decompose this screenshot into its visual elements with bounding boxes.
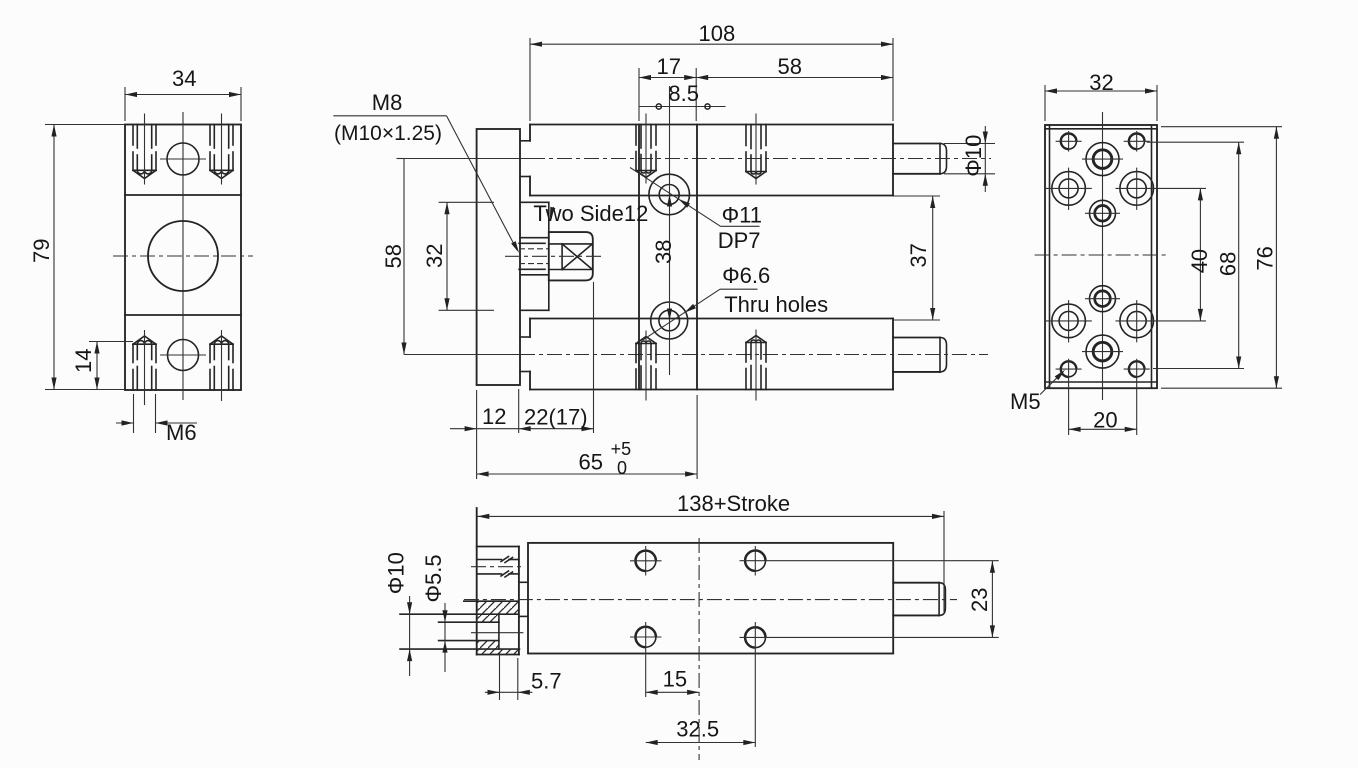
svg-text:17: 17 bbox=[657, 54, 681, 79]
left view big bore horizontal centerline bbox=[113, 255, 253, 257]
left view upper section line bbox=[125, 194, 241, 196]
bottom view hatch band C bbox=[439, 640, 499, 642]
dimension 17 and 58 extension lines bbox=[638, 68, 640, 121]
dimension 32 vertical bbox=[446, 202, 448, 310]
bottom view bore centerline bbox=[471, 632, 523, 634]
central view wrench-flat boss with rounded end bbox=[549, 232, 593, 280]
right view M5 hole top-left bbox=[1061, 134, 1077, 150]
svg-text:138+Stroke: 138+Stroke bbox=[677, 491, 790, 516]
central view rod shoulder lines bbox=[520, 237, 549, 239]
right view center top threaded hole bbox=[1086, 143, 1119, 176]
dimension 34 bbox=[125, 94, 241, 96]
dimension 108 bbox=[530, 43, 893, 45]
dimension 76 extension lines bbox=[1161, 126, 1282, 128]
bottom view body outline bbox=[528, 543, 893, 654]
dimension 79 extension lines bbox=[45, 124, 125, 126]
bottom view piston rod bbox=[893, 582, 939, 584]
svg-text:65: 65 bbox=[579, 450, 603, 475]
svg-text:58: 58 bbox=[778, 54, 802, 79]
svg-text:Φ10: Φ10 bbox=[961, 135, 986, 177]
bottom view hatch band B bbox=[477, 614, 499, 622]
svg-text:5.7: 5.7 bbox=[531, 669, 562, 694]
left view M6 threaded hole bottom-right bbox=[209, 370, 211, 391]
right view center small threaded hole upper bbox=[1090, 200, 1116, 226]
dimension 38 on hole centerline bbox=[667, 195, 672, 207]
central view M8 rod thread lines bbox=[519, 242, 545, 244]
dimension 138+Stroke bbox=[477, 515, 944, 517]
dimension 32.5 bbox=[646, 742, 756, 744]
dimension 23 bbox=[991, 561, 993, 638]
svg-text:DP7: DP7 bbox=[718, 228, 761, 253]
dimension 138+Stroke extension line right bbox=[943, 511, 945, 612]
svg-text:+5: +5 bbox=[611, 439, 632, 459]
dimension 37 bbox=[932, 196, 934, 320]
bottom view mounting hole bottom-right bbox=[745, 627, 765, 647]
svg-text:Thru holes: Thru holes bbox=[724, 292, 828, 317]
dimension 32 right view extension lines bbox=[1044, 85, 1046, 121]
dimension phi10 rod bbox=[984, 126, 986, 192]
right view counterbore hole lower-left bbox=[1052, 304, 1086, 338]
dimension 12 and 22(17) extension lines bbox=[476, 390, 478, 479]
svg-text:22(17): 22(17) bbox=[524, 405, 588, 430]
bottom view end plate outline bbox=[476, 508, 478, 655]
svg-text:37: 37 bbox=[906, 243, 931, 267]
central view upper neck bbox=[520, 140, 530, 142]
port hole bottom-right on lower barrel bbox=[745, 369, 747, 390]
svg-text:68: 68 bbox=[1215, 252, 1240, 276]
dimension 58 vertical bbox=[403, 159, 405, 355]
central view upper barrel centerline bbox=[404, 158, 530, 160]
dimension 37 extension lines bbox=[893, 195, 940, 197]
dimension 8.5 bbox=[639, 106, 726, 108]
right view vertical centerline bbox=[1102, 112, 1104, 400]
dimension 17 bbox=[639, 77, 696, 79]
svg-text:38: 38 bbox=[651, 240, 676, 264]
dimension phi5.5 bottom view bbox=[444, 603, 446, 672]
dimension 68 extension lines bbox=[1147, 141, 1244, 143]
left end view outline bbox=[125, 125, 241, 391]
left view lower section line bbox=[125, 314, 241, 316]
svg-text:23: 23 bbox=[967, 588, 992, 612]
hole vertical centerline bbox=[669, 86, 671, 375]
svg-text:8.5: 8.5 bbox=[668, 81, 699, 106]
bottom view mounting hole bottom-left bbox=[636, 627, 656, 647]
port hole top-right on upper barrel bbox=[745, 125, 747, 146]
port hole top-left on upper barrel bbox=[635, 125, 637, 146]
left view M6 threaded hole top-right bbox=[209, 125, 211, 146]
bottom view bore depth line bbox=[498, 614, 500, 649]
bottom view threaded rod bbox=[477, 559, 502, 561]
dimension 5.7 bbox=[485, 691, 533, 693]
svg-text:79: 79 bbox=[29, 239, 54, 263]
through hole circle phi6.6 bbox=[651, 302, 688, 339]
central view lower barrel centerline bbox=[404, 354, 520, 356]
svg-text:Φ11: Φ11 bbox=[722, 203, 762, 228]
svg-text:15: 15 bbox=[663, 666, 687, 691]
right view M5 hole bottom-right bbox=[1129, 361, 1145, 377]
dimension 15 bbox=[646, 691, 699, 693]
central view slide block boss bbox=[520, 201, 549, 203]
svg-text:0: 0 bbox=[617, 458, 627, 478]
left view lower pilot hole circle bbox=[168, 340, 199, 371]
port hole bottom-left on lower barrel bbox=[635, 369, 637, 390]
svg-text:40: 40 bbox=[1187, 249, 1212, 273]
svg-text:34: 34 bbox=[172, 66, 196, 91]
svg-text:M6: M6 bbox=[166, 420, 197, 445]
central view upper piston rod bbox=[893, 143, 940, 145]
central view lower piston rod bbox=[893, 337, 940, 339]
right view counterbore hole mid-left bbox=[1052, 172, 1086, 206]
bottom view rod bore hatch band A bbox=[477, 601, 518, 614]
svg-text:32: 32 bbox=[422, 244, 447, 268]
dimension 68 bbox=[1238, 142, 1240, 368]
svg-text:20: 20 bbox=[1093, 408, 1117, 433]
dimension 32 vertical extension lines bbox=[439, 201, 494, 203]
bottom view mounting hole top-right bbox=[745, 551, 765, 571]
svg-text:58: 58 bbox=[381, 244, 406, 268]
right view horizontal centerline bbox=[1035, 254, 1169, 256]
bottom view phi10 bore line bbox=[400, 613, 518, 615]
svg-text:(M10×1.25): (M10×1.25) bbox=[334, 122, 442, 145]
bottom view phi10 bore line lower bbox=[400, 648, 520, 650]
dimension 58 horizontal bbox=[696, 77, 893, 79]
left view M6 threaded hole top-left bbox=[132, 125, 134, 146]
dimension 40 bbox=[1199, 188, 1201, 321]
right end view outer outline bbox=[1045, 125, 1157, 388]
dimension M6 leader arrows bbox=[116, 422, 134, 424]
bottom view neck lines bbox=[519, 581, 528, 583]
bottom view vertical centerline bbox=[698, 538, 700, 760]
central view lower neck bbox=[520, 336, 530, 338]
svg-text:32.5: 32.5 bbox=[676, 717, 719, 742]
dimension 79 bbox=[53, 125, 55, 390]
svg-text:Φ10: Φ10 bbox=[383, 552, 408, 594]
wrench flat X marks bbox=[561, 244, 563, 270]
bottom view hatch band D bbox=[477, 649, 520, 654]
bottom view horizontal centerline bbox=[464, 599, 957, 601]
left view vertical centerline bbox=[182, 112, 184, 400]
central view upper barrel outline bbox=[530, 124, 893, 126]
left view M6 threaded hole bottom-left bbox=[132, 370, 134, 391]
svg-text:Φ5.5: Φ5.5 bbox=[421, 554, 446, 602]
left view upper pilot hole circle bbox=[167, 143, 199, 175]
dimension 12 and 22(17) bbox=[450, 428, 594, 430]
right view counterbore hole lower-right bbox=[1120, 304, 1154, 338]
central view rod centerline bbox=[505, 255, 605, 257]
svg-text:14: 14 bbox=[71, 349, 96, 373]
svg-text:108: 108 bbox=[699, 21, 736, 46]
right view counterbore hole mid-right bbox=[1120, 172, 1154, 206]
central view center mounting block bbox=[638, 125, 640, 390]
dimension 32 right view bbox=[1045, 90, 1157, 92]
dimension phi10 bottom view bbox=[409, 596, 411, 676]
dimension 108 extension lines bbox=[529, 38, 531, 121]
dimension M6 leader extension lines bbox=[133, 394, 135, 433]
dimension phi10 rod extension lines bbox=[944, 143, 995, 145]
left view big center bore circle bbox=[148, 221, 218, 291]
dimension 20 bbox=[1069, 428, 1137, 430]
svg-text:76: 76 bbox=[1253, 246, 1278, 270]
svg-text:M8: M8 bbox=[372, 90, 403, 115]
dimension 5.7 extension lines bbox=[499, 653, 501, 700]
svg-text:M5: M5 bbox=[1010, 389, 1041, 414]
dimension 65 +5 0 bbox=[477, 473, 697, 475]
right view center small threaded hole lower bbox=[1090, 286, 1116, 312]
bottom view mounting hole top-left bbox=[636, 551, 656, 571]
counterbore hole circle phi11 bbox=[649, 174, 690, 215]
svg-text:12: 12 bbox=[482, 404, 506, 429]
right view center bottom threaded hole bbox=[1086, 335, 1119, 368]
svg-text:Φ6.6: Φ6.6 bbox=[722, 263, 770, 288]
right view M5 hole top-right bbox=[1129, 134, 1145, 150]
right view M5 hole bottom-left bbox=[1061, 361, 1077, 377]
dimension 58 vertical extension lines bbox=[397, 158, 405, 160]
central view lower barrel outline bbox=[530, 318, 893, 320]
dimension 14 extension line bbox=[89, 341, 133, 343]
dimension 76 bbox=[1275, 127, 1277, 389]
right end view inner outline bbox=[1049, 125, 1051, 388]
dimension 34 extension lines bbox=[124, 87, 126, 121]
dimension 14 bbox=[96, 342, 98, 390]
central view left end plate bbox=[477, 129, 520, 385]
svg-text:32: 32 bbox=[1089, 70, 1113, 95]
dimension 65 extension line right bbox=[696, 395, 698, 479]
